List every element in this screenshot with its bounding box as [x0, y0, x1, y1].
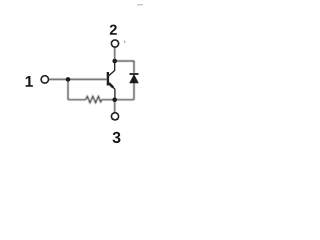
wire emitter down to rail [114, 89, 116, 100]
transistor Q1 emitter lead [108, 83, 115, 90]
diode D1 cathode bar [130, 73, 139, 75]
component symbols (darker ink) [41, 40, 138, 120]
wire branch down from base node [67, 79, 69, 99]
wire collector node to diode top [115, 61, 134, 73]
node collector junction dot [112, 59, 117, 64]
node base junction dot [66, 77, 71, 82]
wire pin3 stub [114, 100, 116, 113]
pin label 3 [113, 132, 121, 143]
pin 3 circle lower-left nub [112, 118, 114, 120]
artifact dash top [137, 4, 143, 7]
pin 1 terminal circle [41, 76, 48, 83]
transistor Q1 base bar [107, 72, 109, 86]
wire rail right segment [102, 99, 134, 101]
pin 2 terminal circle [111, 40, 118, 47]
transistor Q1 collector lead [108, 61, 115, 76]
wire collector to pin2 [114, 47, 116, 61]
pin label 2 [110, 25, 117, 35]
thin interconnect wires (lighter, scan-blurred) [49, 47, 134, 112]
node emitter junction dot [112, 97, 117, 102]
resistor R1 [86, 96, 102, 103]
pin label 1 [26, 76, 33, 87]
diode D1 anode triangle [130, 75, 139, 83]
wire rail left segment [68, 99, 86, 101]
pin 3 circle lower-right nub [116, 118, 118, 120]
pin 3 terminal circle [111, 113, 118, 120]
transistor Q1 emitter arrowhead [109, 83, 113, 87]
artifact mark near pin2 [123, 41, 126, 44]
wire diode bottom to rail [133, 83, 135, 100]
wire pin1 to base [49, 78, 107, 80]
